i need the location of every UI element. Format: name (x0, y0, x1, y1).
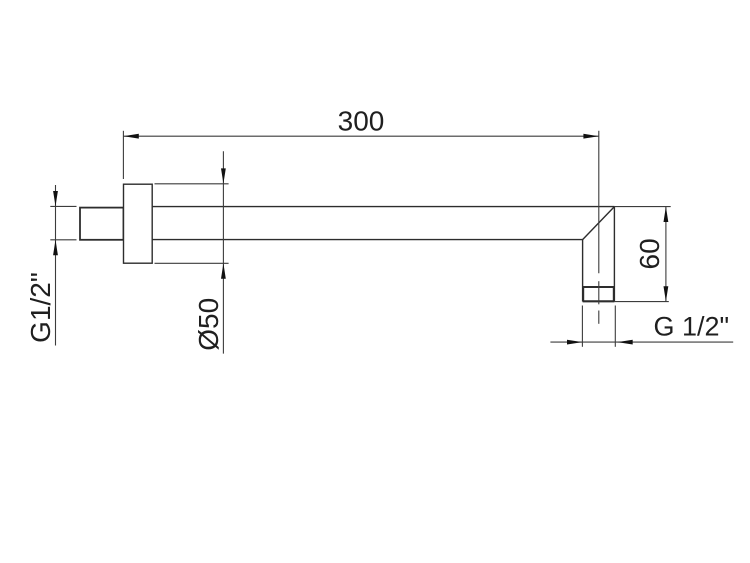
dim 300 left arrowhead (123, 134, 138, 139)
svg-text:G 1/2": G 1/2" (654, 312, 730, 342)
dim 60 top extension line (614, 206, 670, 208)
dim 60 bottom extension line (614, 301, 668, 303)
left thread dim lower arrowhead (53, 240, 58, 255)
miter joint diagonal (583, 207, 615, 240)
svg-text:60: 60 (634, 238, 665, 269)
outlet bottom edge (583, 300, 615, 302)
dim 300 right arrowhead (583, 134, 598, 139)
outlet centerline / dim 300 right extension (598, 131, 600, 273)
bottom thread dim right extension line (614, 306, 616, 347)
svg-text:300: 300 (338, 106, 385, 137)
dim 50 upper arrowhead (221, 168, 226, 183)
arm tube top edge (152, 206, 614, 208)
svg-text:Ø50: Ø50 (193, 298, 224, 351)
dim 300 left extension line (122, 131, 124, 179)
arm tube bottom edge (152, 239, 582, 241)
dim 50 top extension line (155, 183, 229, 185)
bottom thread dim left extension line (581, 306, 583, 347)
left thread dimension line (55, 185, 57, 346)
outlet thread top line (583, 286, 615, 288)
left thread dim top extension line (50, 205, 76, 207)
bottom thread dim right arrowhead (617, 340, 632, 345)
svg-text:G1/2": G1/2" (25, 272, 56, 343)
dim 60 lower arrowhead (664, 286, 669, 301)
square wall flange (124, 184, 153, 263)
wall thread nipple G1/2 (80, 208, 124, 240)
left thread dim upper arrowhead (53, 191, 58, 206)
outlet left edge (582, 240, 584, 302)
dim 50 dimension line (222, 151, 224, 353)
dim 50 lower arrowhead (221, 263, 226, 278)
dim 50 bottom extension line (155, 262, 229, 264)
outlet right edge (613, 207, 615, 302)
outlet thread right side (613, 287, 615, 302)
dim 300 dimension line (123, 135, 598, 137)
bottom thread dim left arrowhead (567, 340, 582, 345)
dim 60 dimension line (665, 207, 667, 302)
left thread dim bottom extension line (50, 239, 76, 241)
outlet thread left side (582, 287, 584, 302)
dim 60 upper arrowhead (664, 207, 669, 222)
bottom thread dimension line (550, 341, 733, 343)
